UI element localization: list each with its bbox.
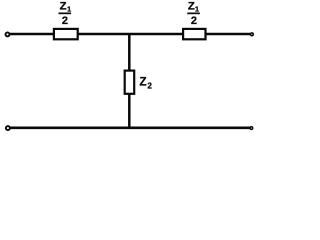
- svg-text:1: 1: [195, 5, 199, 14]
- wire top-left (port 1 to left Z1/2 box): [10, 33, 54, 36]
- resistor Z1/2 (left series impedance box): [54, 29, 78, 39]
- resistor Z1/2 (right series impedance box): [183, 29, 205, 39]
- terminal port 2 (top-right): [251, 33, 254, 36]
- node T-junction: wire down from top rail to Z2: [128, 33, 131, 71]
- wire top-middle (left box to right box through node): [78, 33, 184, 36]
- label Z1/2 (right): [187, 1, 200, 27]
- svg-text:2: 2: [191, 15, 197, 27]
- terminal port 2' (bottom-right): [250, 127, 253, 130]
- svg-text:Z: Z: [60, 1, 67, 13]
- svg-text:1: 1: [67, 5, 71, 14]
- svg-text:Z: Z: [188, 1, 195, 13]
- wire from Z2 box down to bottom rail: [128, 94, 131, 128]
- label Z2: [139, 74, 152, 90]
- terminal port 1 (top-left): [6, 32, 10, 36]
- terminal port 1' (bottom-left): [6, 126, 10, 130]
- svg-text:2: 2: [62, 15, 68, 27]
- wire top-right (right box to port 2): [206, 33, 251, 36]
- wire bottom rail (port 1' to port 2'): [10, 126, 250, 129]
- svg-text:Z: Z: [139, 74, 146, 88]
- resistor Z2 (shunt impedance box): [125, 71, 135, 94]
- label Z1/2 (left): [59, 1, 72, 27]
- svg-text:2: 2: [147, 81, 152, 90]
